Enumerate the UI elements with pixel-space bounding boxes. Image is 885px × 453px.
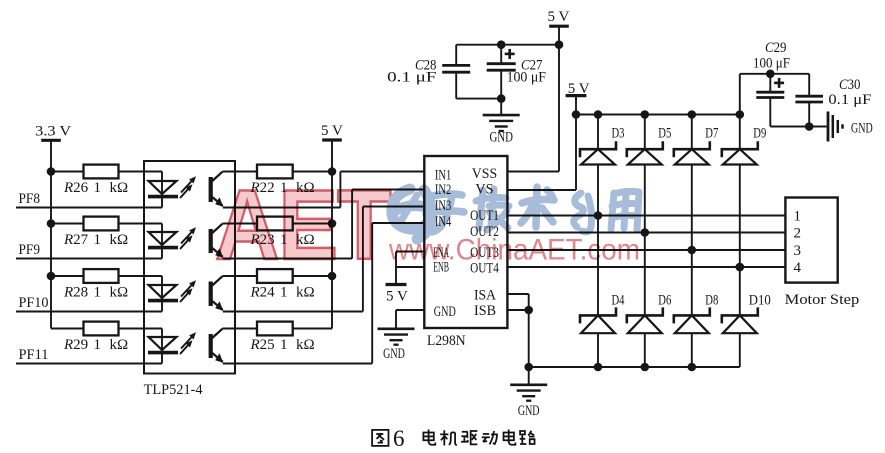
power terminal 5V (pull-up rail): [321, 123, 343, 140]
pin IN4: [435, 214, 452, 230]
junction 3.3V-R28: [47, 272, 56, 281]
phototransistor Q of channel 4: [211, 329, 224, 363]
wire 3.3V rail: [51, 140, 84, 328]
resistor R22 1 kOhm: [250, 165, 315, 196]
junction C29 top: [766, 70, 775, 79]
resistor R23 1 kOhm: [250, 217, 315, 248]
capacitor C30 0.1uF: [795, 74, 871, 127]
wire collector ch1 to R22: [223, 171, 258, 173]
pin GND: [434, 304, 456, 320]
pin VS: [475, 182, 493, 198]
wire collector ch4 to R25: [223, 328, 258, 330]
junction ground rail / D6: [641, 363, 650, 372]
wire OUT4 to motor pin 4: [507, 266, 785, 268]
junction OUT3 / diode column: [688, 246, 697, 255]
wire C29/C30 top: [740, 74, 809, 115]
wire collector ch2 to R23: [223, 223, 258, 225]
junction OUT2 / diode column: [641, 228, 650, 237]
pin OUT3: [470, 245, 499, 261]
pin VSS: [472, 166, 497, 182]
wire R25 to 5V rail: [293, 328, 332, 330]
svg-text:6: 6: [393, 426, 405, 451]
resistor R29 1 kOhm: [63, 322, 128, 353]
diode D8: [674, 250, 719, 367]
wire emitter ch3 to IN3: [223, 207, 424, 312]
pin ISB: [474, 303, 496, 319]
diode D5: [627, 115, 672, 233]
capacitor C27 100uF polarized: [487, 45, 546, 99]
junction 3.3V-R26: [47, 167, 56, 176]
pin OUT2: [470, 224, 499, 240]
pin IN3: [435, 198, 451, 214]
diode D4: [580, 216, 625, 368]
wire OUT3 to motor pin 3: [507, 249, 785, 251]
resistor R25 1 kOhm: [250, 322, 315, 353]
wire 5V to VSS: [507, 26, 559, 171]
pin IN1: [435, 167, 451, 183]
wire ISB: [507, 309, 528, 311]
light arrows channel 1: [180, 176, 196, 198]
wire ENA: [396, 251, 424, 253]
junction C30 bottom: [805, 122, 814, 131]
pin 1 of motor connector: [794, 209, 802, 225]
junction 5V-R22: [328, 167, 337, 176]
light arrows channel 2: [180, 227, 196, 249]
node PF11: [16, 347, 162, 364]
diode D10: [722, 267, 771, 367]
watermark url text: [388, 234, 640, 267]
diode D3: [580, 115, 625, 216]
wire 5V pull-up rail: [331, 140, 333, 329]
light arrows channel 4: [180, 332, 196, 354]
wire OUT2 to motor pin 2: [507, 232, 785, 234]
junction OUT4 / D9 column: [736, 263, 745, 272]
wire VS: [507, 96, 576, 190]
ground (decoupling): [483, 99, 520, 146]
wire R24 to 5V rail: [293, 275, 332, 277]
node PF9: [16, 242, 162, 259]
wire decoupling bottom: [456, 98, 501, 100]
light arrows channel 3: [180, 280, 196, 302]
wire emitter ch2 to IN2: [223, 190, 424, 259]
node PF10: [16, 295, 162, 312]
diode D9: [722, 115, 767, 268]
wire collector ch3 to R24: [223, 275, 258, 277]
wire ISA: [507, 294, 528, 367]
junction 5V-R24: [328, 272, 337, 281]
resistor R26 1 kOhm: [51, 165, 128, 196]
LED of optocoupler channel 4: [148, 329, 178, 364]
wire R22 to 5V rail: [293, 171, 332, 173]
resistor R27 1 kOhm: [51, 217, 128, 248]
wire R23 to 5V rail: [293, 223, 332, 225]
junction OUT1 / diode column: [594, 211, 603, 220]
pin ISA: [474, 287, 496, 303]
junction VS rail: [572, 110, 581, 119]
wire diode top rail: [576, 114, 740, 116]
watermark AET logo text: [215, 170, 391, 280]
watermark blue glyphs: [392, 187, 639, 239]
diode D7: [674, 115, 719, 251]
pin OUT1: [470, 208, 499, 224]
phototransistor Q of channel 1: [211, 172, 224, 207]
junction top rail / D7: [688, 110, 697, 119]
junction 5V-R23: [328, 219, 337, 228]
wire decoupling top: [456, 44, 559, 46]
resistor R24 1 kOhm: [250, 269, 315, 300]
junction bottom wire / GND lead: [497, 94, 506, 103]
LED of optocoupler channel 1: [148, 172, 178, 208]
junction top wire / C27: [497, 40, 506, 49]
wire resistor to LED anode: [119, 171, 163, 173]
capacitor C28 0.1uF: [387, 45, 470, 99]
resistor R28 1 kOhm: [51, 269, 128, 300]
junction ground rail / D8: [688, 363, 697, 372]
wire emitter ch4 to IN4: [223, 223, 424, 364]
wire ENB: [396, 252, 424, 285]
wire ground rail: [529, 366, 740, 368]
optocoupler U TLP521-4 box: [144, 161, 235, 398]
phototransistor Q of channel 2: [211, 224, 224, 258]
LED of optocoupler channel 3: [148, 276, 178, 312]
chassis ground (right): [828, 112, 873, 142]
junction ground rail left: [524, 363, 533, 372]
junction top rail / D9: [736, 110, 745, 119]
wire OUT1 to motor pin 1: [507, 215, 785, 217]
power terminal 5V (top): [548, 9, 570, 26]
wire resistor to LED anode: [119, 275, 163, 277]
junction 3.3V-R27: [47, 219, 56, 228]
junction top wire / 5V rail: [555, 40, 564, 49]
junction OUT4 / diode column: [736, 263, 745, 272]
power terminal 5V for ENA/ENB: [386, 285, 408, 305]
driver IC U L298N: [424, 156, 507, 349]
diode D6: [627, 233, 672, 368]
connector Motor Step: [785, 198, 860, 309]
capacitor C29 100uF polarized: [753, 40, 790, 127]
pin 3 of motor connector: [794, 243, 802, 259]
ground (logic): [378, 329, 415, 362]
junction top rail / D5: [641, 110, 650, 119]
ground (power): [510, 367, 547, 419]
wire C29/C30 bottom to chassis ground: [770, 126, 826, 128]
LED of optocoupler channel 2: [148, 224, 178, 259]
pin OUT4: [470, 261, 499, 277]
junction top rail / D3: [594, 110, 603, 119]
pin ENA: [433, 245, 449, 261]
pin IN2: [435, 182, 451, 198]
power terminal 3.3V: [35, 123, 71, 140]
wire resistor to LED anode: [119, 223, 163, 225]
junction ground rail / D4: [594, 363, 603, 372]
caption: figure 6 motor drive circuit: [372, 430, 534, 446]
wire resistor to LED anode: [119, 328, 163, 330]
wire GND pin: [396, 310, 424, 329]
phototransistor Q of channel 3: [211, 276, 224, 311]
wire emitter ch1 to IN1: [223, 172, 424, 208]
junction ISB: [524, 306, 533, 315]
node PF8: [16, 191, 162, 208]
pin 2 of motor connector: [794, 226, 802, 242]
power terminal 5V (VS): [566, 81, 590, 97]
pin ENB: [433, 260, 449, 276]
caption figure number 6: [393, 426, 405, 451]
pin 4 of motor connector: [794, 260, 802, 276]
